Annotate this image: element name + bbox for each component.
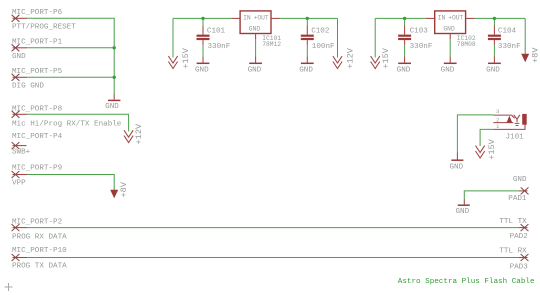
ground PAD1 bbox=[455, 199, 469, 216]
no-connect X MIC_PORT-P8 bbox=[12, 111, 20, 118]
svg-text:330nF: 330nF bbox=[410, 43, 433, 51]
wire top rail section 1 left bbox=[173, 17, 231, 19]
junction dot C101 bbox=[201, 17, 204, 20]
svg-text:GND: GND bbox=[397, 67, 411, 75]
svg-text:+15V: +15V bbox=[487, 138, 497, 159]
no-connect X PAD3 bbox=[521, 254, 529, 261]
no-connect X PAD2 bbox=[521, 224, 529, 231]
connector J101 jack symbol bbox=[493, 114, 526, 129]
svg-text:SWB+: SWB+ bbox=[12, 148, 31, 156]
supply +12V arrow (P8) bbox=[124, 130, 133, 142]
svg-text:GND: GND bbox=[105, 103, 119, 111]
svg-text:GND: GND bbox=[455, 208, 469, 216]
origin cross bbox=[5, 283, 13, 291]
wire top rail section 1 right bbox=[280, 17, 338, 19]
pin stub MIC_PORT-P5 bbox=[13, 76, 28, 78]
supply +8V arrow (P9) bbox=[110, 190, 118, 199]
junction dot C103 bbox=[403, 17, 406, 20]
wire PROG RX DATA / TTL TX bbox=[27, 227, 519, 229]
svg-text:TTL RX: TTL RX bbox=[499, 247, 527, 255]
capacitor C102 bbox=[301, 18, 335, 56]
junction dot P5/bus bbox=[113, 76, 116, 79]
regulator IC101 78M12 bbox=[240, 11, 281, 48]
svg-text:MIC_PORT-P1: MIC_PORT-P1 bbox=[12, 39, 63, 47]
wire Mic Hi/Prog RX/TX Enable bbox=[27, 114, 129, 131]
ground C101 bbox=[195, 56, 209, 74]
junction dot C104 bbox=[493, 17, 496, 20]
no-connect X MIC_PORT-P4 bbox=[12, 142, 20, 149]
junction dot P1/bus bbox=[113, 46, 116, 49]
no-connect X MIC_PORT-P10 bbox=[12, 254, 20, 261]
supply +15V arrow (section 1) bbox=[168, 56, 177, 68]
wire DIG GND net P5 bbox=[27, 76, 114, 78]
wire top rail section 2 right bbox=[475, 17, 526, 19]
svg-text:TTL TX: TTL TX bbox=[499, 218, 527, 226]
svg-text:Mic Hi/Prog RX/TX Enable: Mic Hi/Prog RX/TX Enable bbox=[12, 121, 122, 129]
svg-text:+8V: +8V bbox=[119, 181, 129, 197]
supply +12V arrow (section 1 out) bbox=[333, 56, 342, 68]
pin IN IC102 bbox=[426, 17, 435, 19]
svg-text:GND: GND bbox=[12, 53, 26, 61]
supply +15V stem (section 2) bbox=[374, 18, 376, 57]
svg-text:GND: GND bbox=[299, 67, 313, 75]
wire PTT/PROG_RESET bbox=[27, 18, 114, 93]
supply +8V arrow (section 2 out) bbox=[521, 54, 529, 63]
svg-text:MIC_PORT-P6: MIC_PORT-P6 bbox=[12, 9, 63, 17]
ground C103 bbox=[397, 56, 411, 74]
ground IC102 bbox=[441, 56, 457, 74]
no-connect X MIC_PORT-P6 bbox=[12, 15, 20, 22]
ground C104 bbox=[486, 56, 501, 74]
pin IN IC101 bbox=[231, 17, 240, 19]
no-connect X MIC_PORT-P1 bbox=[12, 44, 20, 51]
no-connect X MIC_PORT-P5 bbox=[12, 74, 20, 81]
no-connect X PAD1 bbox=[521, 187, 529, 194]
wire IC101 GND bbox=[255, 39, 257, 56]
no-connect X MIC_PORT-P9 bbox=[12, 171, 20, 178]
svg-text:330nF: 330nF bbox=[208, 43, 231, 51]
svg-text:+15V: +15V bbox=[381, 47, 391, 68]
svg-text:PROG RX DATA: PROG RX DATA bbox=[12, 234, 67, 242]
svg-text:DIG GND: DIG GND bbox=[12, 83, 44, 91]
svg-text:VPP: VPP bbox=[12, 179, 26, 187]
svg-text:MIC_PORT-P4: MIC_PORT-P4 bbox=[12, 133, 63, 141]
wire PROG TX DATA / TTL RX bbox=[27, 257, 519, 259]
svg-text:C101: C101 bbox=[207, 28, 226, 36]
svg-text:PAD1: PAD1 bbox=[508, 195, 527, 203]
wire J101 pin1 to +15V bbox=[480, 129, 493, 146]
svg-text:J101: J101 bbox=[506, 134, 525, 142]
svg-text:GND: GND bbox=[249, 26, 261, 33]
svg-text:MIC_PORT-P10: MIC_PORT-P10 bbox=[12, 247, 67, 255]
pin GND IC101 bbox=[255, 34, 257, 40]
svg-text:GND: GND bbox=[443, 26, 455, 33]
supply +15V stem (section 1) bbox=[172, 18, 174, 57]
ground bus GND symbol bbox=[105, 94, 120, 111]
pin OUT IC102 bbox=[466, 17, 475, 19]
svg-text:MIC_PORT-P5: MIC_PORT-P5 bbox=[12, 68, 63, 76]
pin stub MIC_PORT-P9 bbox=[13, 174, 28, 176]
pin stub PAD1 bbox=[519, 190, 528, 192]
svg-text:MIC_PORT-P8: MIC_PORT-P8 bbox=[12, 105, 63, 113]
wire PAD1 to GND bbox=[464, 191, 519, 199]
svg-text:GND: GND bbox=[486, 67, 500, 75]
svg-text:+12V: +12V bbox=[346, 47, 356, 68]
svg-text:GND: GND bbox=[441, 67, 455, 75]
ground C102 bbox=[299, 56, 313, 74]
ground J101 bbox=[449, 153, 463, 172]
capacitor C104 bbox=[488, 18, 521, 56]
svg-text:PTT/PROG_RESET: PTT/PROG_RESET bbox=[12, 24, 76, 32]
svg-text:100nF: 100nF bbox=[312, 43, 335, 51]
pin stub MIC_PORT-P2 bbox=[13, 227, 28, 229]
svg-text:PAD3: PAD3 bbox=[510, 263, 529, 271]
wire J101 pin3 to GND bbox=[457, 115, 493, 153]
svg-text:+12V: +12V bbox=[134, 123, 144, 144]
svg-text:+OUT: +OUT bbox=[254, 15, 269, 22]
svg-text:2: 2 bbox=[496, 117, 499, 123]
pin stub MIC_PORT-P10 bbox=[13, 257, 28, 259]
svg-text:C103: C103 bbox=[410, 28, 429, 36]
svg-text:78M08: 78M08 bbox=[457, 41, 476, 48]
svg-text:PAD2: PAD2 bbox=[510, 233, 529, 241]
supply +8V stem (section 2 out) bbox=[524, 18, 526, 54]
wire IC102 GND bbox=[449, 39, 451, 56]
wire top rail section 2 left bbox=[375, 17, 426, 19]
svg-text:GND: GND bbox=[195, 67, 209, 75]
svg-text:+8V: +8V bbox=[531, 47, 540, 63]
pin stub MIC_PORT-P8 bbox=[13, 113, 28, 115]
svg-text:GND: GND bbox=[513, 176, 527, 184]
pin stub MIC_PORT-P4 bbox=[13, 145, 27, 147]
pin OUT IC101 bbox=[271, 17, 280, 19]
svg-text:C104: C104 bbox=[498, 28, 517, 36]
pin GND IC102 bbox=[449, 34, 451, 40]
pin stub PAD2 bbox=[519, 227, 528, 229]
pin stub MIC_PORT-P1 bbox=[13, 47, 28, 49]
svg-text:C102: C102 bbox=[311, 28, 330, 36]
svg-text:3: 3 bbox=[496, 109, 499, 115]
svg-text:330nF: 330nF bbox=[498, 43, 521, 51]
svg-text:GND: GND bbox=[248, 67, 262, 75]
no-connect X MIC_PORT-P2 bbox=[12, 224, 20, 231]
svg-text:MIC_PORT-P2: MIC_PORT-P2 bbox=[12, 218, 63, 226]
pin stub PAD3 bbox=[519, 257, 528, 259]
svg-text:Astro Spectra Plus Flash Cable: Astro Spectra Plus Flash Cable bbox=[398, 278, 535, 286]
wire GND net P1 bbox=[27, 47, 114, 49]
supply +12V stem (section 1 out) bbox=[337, 18, 339, 57]
svg-text:78M12: 78M12 bbox=[262, 41, 281, 48]
svg-text:+15V: +15V bbox=[181, 47, 191, 68]
capacitor C101 bbox=[197, 18, 231, 56]
ground IC101 bbox=[248, 56, 262, 74]
pin stub MIC_PORT-P6 bbox=[13, 17, 28, 19]
svg-text:PROG TX DATA: PROG TX DATA bbox=[12, 263, 67, 271]
svg-text:IN: IN bbox=[438, 15, 446, 22]
regulator IC102 78M08 bbox=[435, 11, 476, 48]
svg-text:IN: IN bbox=[243, 15, 251, 22]
junction dot C102 bbox=[306, 17, 309, 20]
wire VPP net bbox=[27, 175, 114, 192]
supply +15V arrow (section 2) bbox=[371, 56, 380, 68]
supply +15V arrow (J101) bbox=[476, 146, 485, 158]
capacitor C103 bbox=[398, 18, 433, 56]
svg-text:GND: GND bbox=[449, 164, 463, 172]
svg-text:+OUT: +OUT bbox=[448, 15, 463, 22]
svg-text:1: 1 bbox=[496, 124, 499, 130]
